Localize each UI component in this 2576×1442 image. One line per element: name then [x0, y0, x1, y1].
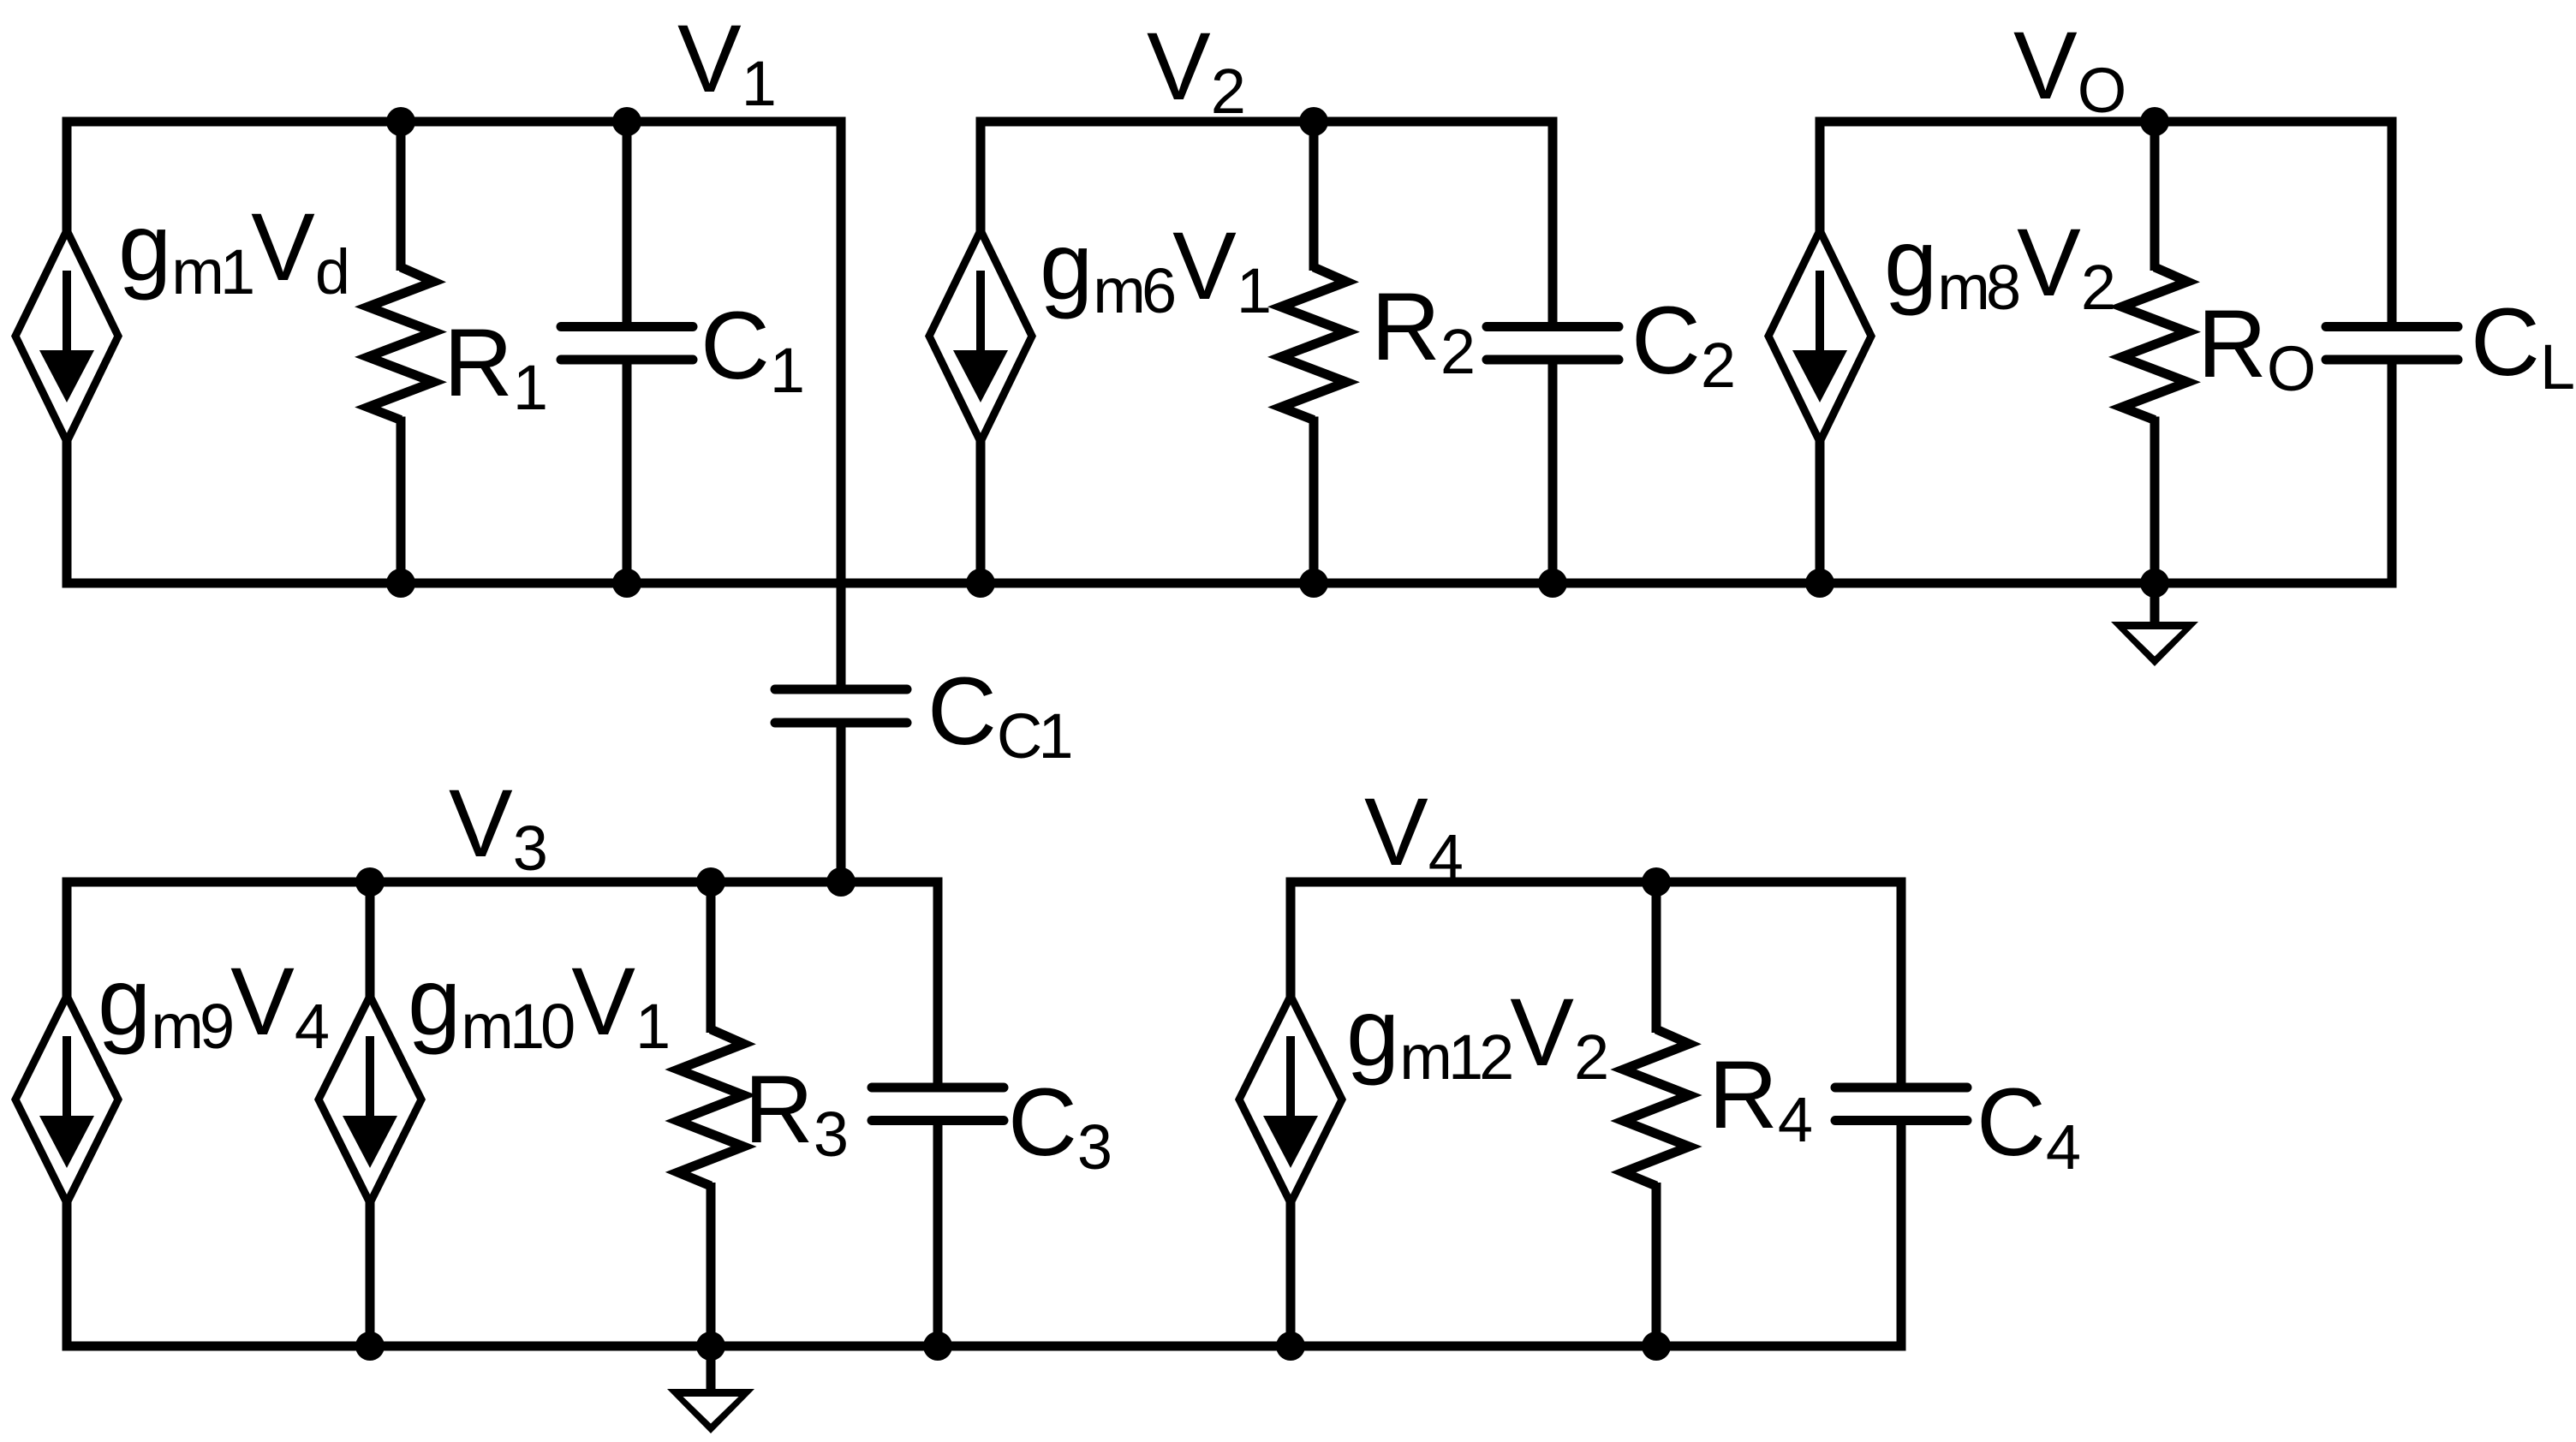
junction dot (2516,142): [2140, 107, 2169, 136]
svg-text:V4: V4: [1364, 778, 1462, 892]
svg-text:R3: R3: [744, 1056, 846, 1170]
svg-text:R1: R1: [444, 309, 546, 423]
svg-text:gm1Vd: gm1Vd: [118, 194, 347, 307]
junction dot (1095,1572): [923, 1332, 952, 1361]
wire: node V2 top rail (stage 2): [976, 117, 1558, 127]
svg-text:V2: V2: [1147, 13, 1243, 127]
svg-text:VO: VO: [2013, 12, 2125, 126]
junction dot (432,1030): [355, 867, 385, 897]
capacitor C2: [1548, 122, 1558, 327]
svg-text:C4: C4: [1977, 1069, 2079, 1183]
ground symbol (top circuit, below RO): [2150, 583, 2160, 627]
current source gm9V4 (left edge): [63, 882, 72, 1001]
svg-text:gm8V2: gm8V2: [1884, 209, 2114, 323]
junction dot (1813,681): [1538, 569, 1567, 598]
wire: top circuit ground rail: [63, 579, 2397, 588]
wire: node V1 top rail (stage 1): [63, 117, 846, 127]
capacitor CC1: [775, 685, 907, 694]
svg-text:gm12V2: gm12V2: [1346, 979, 1607, 1093]
svg-text:V1: V1: [677, 5, 774, 119]
junction dot (1145,681): [966, 569, 995, 598]
svg-text:gm9V4: gm9V4: [98, 948, 328, 1062]
wire: stage-1 left edge from top rail: [63, 122, 72, 235]
junction dot (468,681): [386, 569, 415, 598]
resistor RO: [2150, 122, 2160, 271]
junction dot (432,1572): [355, 1332, 385, 1361]
svg-text:gm10V1: gm10V1: [408, 948, 668, 1062]
resistor R1: [397, 122, 406, 271]
svg-text:R2: R2: [1371, 273, 1473, 387]
junction dot (1534,142): [1299, 107, 1328, 136]
junction dot (830,1572): [696, 1332, 725, 1361]
capacitor CL: [2388, 122, 2397, 327]
junction dot (2516,681): [2140, 569, 2169, 598]
current source gm12V2: [1286, 882, 1296, 1001]
wire: bottom circuit ground rail: [63, 1342, 1906, 1351]
junction dot (1934,1572): [1642, 1332, 1671, 1361]
capacitor C1: [623, 122, 632, 327]
junction dot (1934,1030): [1642, 867, 1671, 897]
wire: V1 column down to CC1 top plate: [837, 122, 846, 689]
current source gm6V1: [976, 122, 986, 235]
svg-text:C1: C1: [701, 292, 802, 406]
current source gm8V2: [1816, 122, 1825, 235]
current source gm10V1: [366, 882, 375, 1001]
resistor R2: [1309, 122, 1319, 271]
capacitor C3: [933, 882, 943, 1087]
svg-text:RO: RO: [2197, 290, 2314, 404]
current source gm1Vd: [63, 122, 72, 235]
wire: node VO top rail (stage 3): [1816, 117, 2397, 127]
svg-text:V3: V3: [449, 770, 546, 884]
junction dot (732,681): [612, 569, 641, 598]
junction dot (2125,681): [1805, 569, 1834, 598]
resistor R3: [707, 882, 716, 1033]
junction dot (1534,681): [1299, 569, 1328, 598]
junction dot (1507,1572): [1276, 1332, 1305, 1361]
svg-text:C2: C2: [1631, 287, 1733, 401]
junction dot (468,142): [386, 107, 415, 136]
junction dot (732,142): [612, 107, 641, 136]
resistor R4: [1652, 882, 1661, 1033]
junction dot (982,1030): [826, 867, 856, 897]
wire: node V3 top rail: [63, 878, 943, 887]
ground symbol (bottom circuit, below R3): [707, 1346, 716, 1394]
capacitor C4: [1897, 882, 1906, 1087]
junction dot (830,1030): [696, 867, 725, 897]
svg-text:CL: CL: [2471, 289, 2573, 402]
svg-text:CC1: CC1: [927, 658, 1070, 772]
svg-text:gm6V1: gm6V1: [1040, 212, 1269, 326]
svg-text:C3: C3: [1008, 1069, 1110, 1183]
wire: node V4 top rail: [1286, 878, 1906, 887]
svg-text:R4: R4: [1708, 1041, 1811, 1155]
